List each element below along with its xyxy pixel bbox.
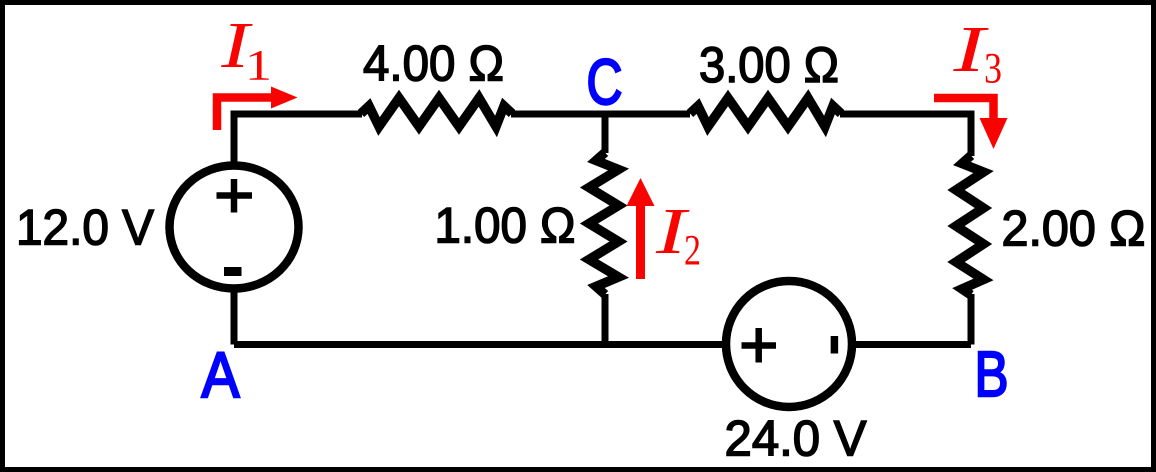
voltage source V1 circle <box>170 166 299 289</box>
svg-text:3: 3 <box>984 46 1002 93</box>
resistor R1 4.00Ω zigzag <box>361 98 512 127</box>
voltage source V2 circle <box>726 281 852 407</box>
resistor R2 3.00Ω zigzag <box>690 98 841 127</box>
wire: top-left segment (source to 4Ω) <box>234 114 362 168</box>
current arrow I3 shaft <box>934 98 994 120</box>
current arrow I2 head <box>627 178 655 206</box>
wire: right branch bottom (2Ω to bottom wire) <box>968 294 975 345</box>
current arrow I1 head <box>271 87 298 109</box>
svg-text:2: 2 <box>684 228 701 275</box>
voltage source V1 minus sign <box>224 267 242 276</box>
resistor R4 2.00Ω zigzag (right branch) <box>956 156 984 296</box>
svg-text:1: 1 <box>245 43 272 90</box>
svg-text:12.0 V: 12.0 V <box>16 199 154 256</box>
wire: middle branch top (node C down to 1Ω) <box>602 111 609 153</box>
wire: bottom-right segment (24V source to B corner) <box>851 341 971 348</box>
voltage source V2 plus sign <box>742 328 777 363</box>
wire: top-middle segment (4Ω to C to 3Ω) <box>511 111 690 118</box>
svg-text:B: B <box>975 338 1009 410</box>
svg-text:24.0 V: 24.0 V <box>725 410 867 467</box>
wire: top-right segment (3Ω to right corner) <box>840 114 971 156</box>
svg-text:4.00 Ω: 4.00 Ω <box>363 35 504 92</box>
current arrow I1 shaft <box>217 98 272 131</box>
current arrow I2 shaft <box>636 203 645 279</box>
voltage source V1 plus sign <box>217 179 253 213</box>
svg-text:1.00 Ω: 1.00 Ω <box>435 197 576 254</box>
svg-text:C: C <box>587 46 623 118</box>
voltage source V2 minus sign <box>831 336 839 354</box>
wire: bottom-left segment (A to 24V source) <box>234 341 727 348</box>
current arrow I3 head <box>980 118 1008 149</box>
svg-text:3.00 Ω: 3.00 Ω <box>699 36 839 93</box>
svg-text:2.00 Ω: 2.00 Ω <box>1002 200 1146 257</box>
svg-text:A: A <box>202 339 240 411</box>
wire: left source bottom lead <box>231 286 238 345</box>
wire: middle branch bottom (1Ω to bottom wire) <box>602 294 609 344</box>
resistor R3 1.00Ω zigzag (middle branch) <box>589 153 619 295</box>
